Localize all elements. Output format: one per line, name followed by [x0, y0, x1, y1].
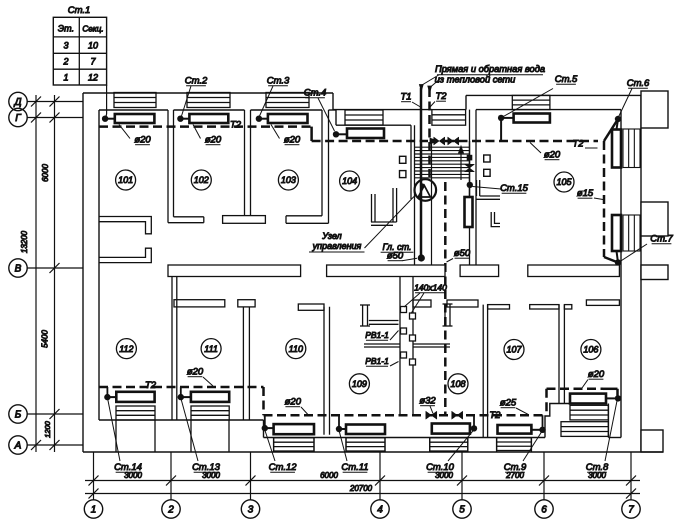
svg-text:Б: Б [15, 409, 22, 420]
svg-text:6: 6 [541, 505, 547, 516]
svg-text:Ст.5: Ст.5 [555, 74, 578, 85]
svg-text:Ст.8: Ст.8 [586, 462, 609, 473]
svg-text:5: 5 [459, 505, 465, 516]
svg-text:109: 109 [352, 379, 367, 389]
svg-text:4: 4 [377, 505, 383, 516]
svg-text:Ст.15: Ст.15 [500, 183, 529, 194]
svg-text:Ст.11: Ст.11 [341, 462, 368, 473]
svg-text:103: 103 [281, 175, 296, 185]
svg-text:Прямая и обратная вода: Прямая и обратная вода [435, 64, 545, 74]
svg-text:Ст.3: Ст.3 [267, 76, 290, 87]
svg-text:ø20: ø20 [205, 135, 222, 146]
svg-text:1200: 1200 [43, 420, 52, 438]
svg-text:ø20: ø20 [284, 135, 301, 146]
svg-text:Ст.14: Ст.14 [114, 462, 142, 473]
svg-text:13200: 13200 [20, 230, 29, 253]
svg-text:РВ1-1: РВ1-1 [365, 356, 389, 366]
svg-text:ø15: ø15 [577, 188, 594, 199]
svg-text:12: 12 [88, 73, 98, 83]
svg-text:112: 112 [119, 344, 133, 354]
svg-text:Т2: Т2 [145, 380, 157, 391]
svg-text:10: 10 [88, 41, 98, 51]
svg-text:Ст.12: Ст.12 [269, 462, 298, 473]
svg-text:3: 3 [63, 41, 68, 51]
svg-text:6000: 6000 [41, 164, 50, 182]
svg-text:101: 101 [118, 175, 133, 185]
svg-text:107: 107 [506, 345, 522, 355]
svg-text:Т2: Т2 [230, 120, 242, 131]
svg-text:ø20: ø20 [588, 369, 605, 380]
svg-text:Ст.4: Ст.4 [304, 88, 327, 99]
svg-text:111: 111 [204, 344, 218, 354]
svg-text:Гл. ст.: Гл. ст. [383, 242, 412, 252]
svg-text:108: 108 [450, 379, 465, 389]
svg-text:Т1: Т1 [400, 92, 411, 103]
svg-text:Ст.13: Ст.13 [192, 462, 221, 473]
svg-text:140х140: 140х140 [414, 283, 447, 293]
svg-text:Узел: Узел [321, 231, 342, 241]
svg-text:5400: 5400 [41, 330, 50, 348]
svg-text:1: 1 [63, 73, 68, 83]
svg-text:Д: Д [13, 97, 21, 108]
svg-text:20700: 20700 [349, 484, 373, 493]
svg-text:ø25: ø25 [500, 398, 517, 409]
svg-text:2: 2 [167, 505, 174, 516]
svg-text:Секц.: Секц. [82, 25, 103, 34]
svg-text:105: 105 [556, 177, 572, 187]
svg-text:ø20: ø20 [285, 397, 302, 408]
svg-text:Г: Г [15, 113, 22, 124]
svg-text:Эт.: Эт. [58, 24, 74, 34]
svg-text:2: 2 [62, 57, 68, 67]
svg-text:Ст.2: Ст.2 [185, 76, 208, 87]
svg-text:7: 7 [628, 505, 634, 516]
svg-text:Т2: Т2 [572, 139, 584, 150]
svg-text:Т2: Т2 [489, 410, 501, 421]
svg-text:ø50: ø50 [454, 248, 471, 259]
svg-text:В: В [15, 263, 22, 274]
svg-text:управления: управления [312, 241, 362, 251]
svg-text:1: 1 [91, 505, 97, 516]
svg-text:ø20: ø20 [187, 367, 204, 378]
svg-text:3: 3 [248, 505, 254, 516]
svg-text:из тепловой сети: из тепловой сети [435, 75, 516, 85]
svg-text:7: 7 [90, 57, 96, 67]
svg-text:6000: 6000 [320, 471, 338, 480]
svg-text:ø20: ø20 [544, 150, 561, 161]
svg-text:104: 104 [342, 176, 357, 186]
svg-text:Ст.6: Ст.6 [627, 78, 650, 89]
svg-text:102: 102 [194, 175, 209, 185]
svg-text:ø20: ø20 [134, 135, 151, 146]
svg-text:110: 110 [289, 344, 303, 354]
svg-text:Ст.10: Ст.10 [426, 462, 455, 473]
svg-text:Ст.9: Ст.9 [504, 462, 527, 473]
svg-text:РВ1-1: РВ1-1 [365, 330, 389, 340]
svg-text:А: А [14, 440, 22, 451]
svg-text:Ст.7: Ст.7 [650, 234, 673, 245]
svg-text:ø32: ø32 [419, 396, 436, 407]
svg-text:Т2: Т2 [435, 91, 447, 102]
svg-text:Ст.1: Ст.1 [68, 5, 91, 16]
svg-text:106: 106 [583, 345, 598, 355]
